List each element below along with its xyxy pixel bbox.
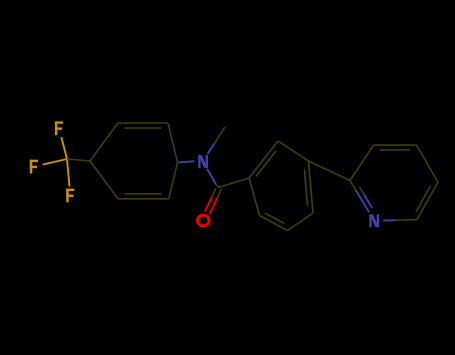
pyridine inner C5-C6 [416,186,431,212]
left ring edge TR-R [168,123,178,163]
bond C-F1 [61,137,67,159]
central ring edge AR-A3 [309,161,314,213]
bond N-C(O) N-half [207,169,216,185]
left ring edge TL-TR [118,122,168,124]
pyridine N1-C6 C-half [396,219,417,222]
pyridine N1=C2 inner N-half [364,194,372,208]
bond C-F2 [43,159,67,165]
pyridine N1=C2 inner C-half [360,187,364,194]
C=O line0 C-half [217,189,222,199]
left ring edge L-TL [90,123,118,161]
bond ringR-N C-half [178,161,180,163]
label F bottom [66,189,69,203]
bond C-F3 [67,159,70,187]
label F left [30,160,33,174]
label N amide [198,155,200,168]
bond N-CH3 C-half [214,127,225,143]
pyridine edge C4-C5 [417,145,439,182]
pyridine edge C5-C6 [417,182,438,219]
pyridine N1-C6 het-half [383,219,395,221]
bond N-CH3 N-half [208,143,215,154]
central ring edge A4-A5 [260,216,288,231]
central ring inner AL-AT [256,151,276,177]
left ring inner bottom [125,193,162,195]
C=O line1 O-half [205,197,212,212]
central ring edge A3-A4 [288,213,314,231]
bond CF3-ring [67,159,90,161]
pyridine edge C2-C3 [350,145,374,180]
C=O line1 C-half [212,188,216,197]
left ring inner top [125,127,162,129]
label N pyridine [369,214,371,227]
label O [197,215,209,226]
bond ringR-N N-half [179,161,195,162]
left ring edge R-BR [169,163,178,199]
pyridine N1=C2 het-half [355,189,369,212]
left ring edge BR-BL [118,198,169,200]
label F top [55,121,58,135]
bond C(O)-centralring [219,178,250,188]
pyridine inner C3-C4 [380,149,410,151]
pyridine N1=C2 C-half [350,181,355,190]
central ring edge AL-AT [249,141,278,178]
central ring edge A5-AL [249,178,260,216]
bond N-C(O) C-half [216,185,218,188]
central ring inner AR-A3 [304,169,307,205]
central ring edge AT-AR [278,141,309,161]
central ring inner A4-A5 [265,213,285,224]
bond central-pyC2 [309,161,351,181]
pyridine edge C3-C4 [374,144,417,146]
left ring edge BL-L [90,161,118,199]
C=O line0 O-half [210,198,217,214]
